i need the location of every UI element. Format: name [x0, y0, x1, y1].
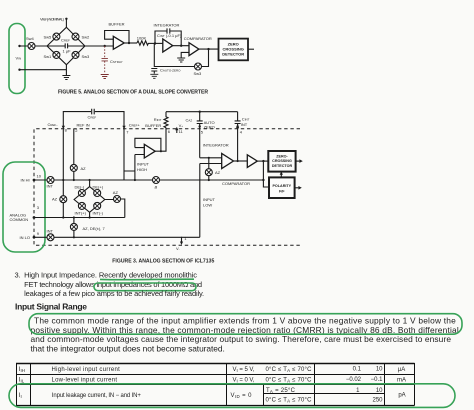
svg-text:0°C ≤ TA ≤ 70°C: 0°C ≤ TA ≤ 70°C	[266, 398, 313, 404]
svg-text:IN HI: IN HI	[21, 177, 30, 182]
capacitor CAZ	[197, 112, 203, 158]
wire auto-zero loop	[154, 44, 208, 67]
svg-text:that the integrator output doe: that the integrator output does not beco…	[31, 343, 225, 353]
capacitor CAUTO-ZERO	[151, 69, 157, 74]
svg-text:INT: INT	[47, 229, 54, 234]
wire integrator upper input	[200, 157, 222, 159]
ground CSTRAY	[101, 75, 109, 79]
node integrator out dot	[180, 45, 182, 47]
wire buffer plus input	[124, 155, 144, 181]
switch Sw1	[53, 51, 60, 58]
svg-text:AZ, DE(±), 7: AZ, DE(±), 7	[83, 226, 106, 231]
svg-text:IIH: IIH	[19, 367, 25, 373]
wire buffer feedback	[105, 31, 129, 44]
svg-text:CREF-: CREF-	[48, 122, 59, 127]
svg-text:CREF+: CREF+	[129, 123, 141, 128]
wire IN HI rail	[34, 179, 263, 181]
svg-text:INT(+): INT(+)	[75, 210, 87, 215]
wire CREF loop top	[63, 112, 124, 180]
switch AZ (integrator)	[208, 158, 210, 180]
svg-text:DETECTOR: DETECTOR	[222, 52, 244, 57]
switch Sw3 (auto zero)	[195, 63, 202, 70]
table row 1: IIH	[19, 367, 406, 404]
wire bridge right to common	[105, 199, 125, 218]
wire polarity to ZCD arrow	[280, 175, 282, 178]
svg-text:0°C ≤ TA ≤ 70°C: 0°C ≤ TA ≤ 70°C	[266, 367, 313, 373]
svg-text:10: 10	[37, 174, 42, 179]
svg-text:3.: 3.	[15, 271, 21, 280]
switch AZ (ref)	[70, 164, 77, 171]
svg-text:Sw5: Sw5	[44, 35, 53, 40]
svg-text:FIGURE 5. ANALOG SECTION OF A: FIGURE 5. ANALOG SECTION OF A DUAL SLOPE…	[58, 90, 208, 96]
green annotation oval (input pins)	[3, 162, 45, 252]
capacitor CSTRAY (dashed parasitic)	[104, 46, 106, 58]
switch B (in hi mid)	[153, 177, 160, 184]
capacitor CINT feedback	[155, 28, 181, 45]
zero crossing detector box	[219, 39, 249, 61]
svg-text:IN LO: IN LO	[20, 235, 30, 240]
node input lower dot	[18, 69, 20, 71]
svg-text:INPUT: INPUT	[137, 162, 150, 167]
svg-text:HIGH: HIGH	[137, 167, 147, 172]
svg-text:Sw1: Sw1	[44, 54, 53, 59]
svg-text:mA: mA	[397, 378, 406, 384]
svg-text:250: 250	[372, 398, 383, 404]
table borders	[16, 363, 415, 365]
green box annotation (common mode paragraph)	[29, 314, 462, 335]
svg-text:−0.02: −0.02	[346, 377, 362, 383]
svg-text:leakages of a few pico amps to: leakages of a few pico amps to be achiev…	[24, 289, 204, 298]
svg-text:B: B	[155, 184, 158, 189]
svg-text:LOW: LOW	[203, 203, 212, 208]
op-amp input-high buffer	[144, 144, 155, 158]
svg-text:Sw4: Sw4	[26, 36, 35, 41]
svg-text:Input Signal Range: Input Signal Range	[15, 301, 87, 311]
svg-text:AZ: AZ	[113, 190, 119, 195]
svg-text:Input leakage current, IN − an: Input leakage current, IN − and IN+	[52, 393, 141, 399]
svg-text:IIL: IIL	[19, 378, 25, 384]
svg-text:CAUTO-ZERO: CAUTO-ZERO	[160, 68, 181, 73]
ground bridge	[62, 76, 70, 80]
node comparator out dot	[262, 160, 264, 162]
wire AZ to common	[62, 180, 64, 218]
polarity f/f box	[269, 177, 295, 198]
switch INT (in hi)	[47, 177, 54, 184]
svg-text:DE(-): DE(-)	[75, 185, 85, 190]
svg-text:High-level input current: High-level input current	[52, 367, 121, 373]
node input upper dot	[18, 45, 20, 47]
svg-text:INT: INT	[47, 184, 54, 189]
svg-text:μA: μA	[398, 367, 405, 373]
switch INT(-)	[94, 202, 101, 209]
svg-text:Sw3: Sw3	[82, 54, 91, 59]
svg-text:1 μF: 1 μF	[63, 48, 72, 53]
svg-text:COMPARATOR: COMPARATOR	[222, 181, 250, 186]
green underline annotation	[100, 278, 194, 281]
svg-text:CSTRAY: CSTRAY	[110, 59, 123, 64]
wire bridge center	[47, 45, 85, 47]
wire common to IN LO branch	[73, 218, 75, 238]
svg-text:INPUT: INPUT	[203, 197, 216, 202]
svg-text:ZERO: ZERO	[204, 125, 215, 130]
switch Sw2	[72, 33, 79, 40]
svg-text:ZERO-: ZERO-	[276, 155, 288, 159]
svg-text:VREF (-NOMINAL): VREF (-NOMINAL)	[40, 17, 65, 22]
node VREF dot	[65, 18, 67, 20]
svg-text:0°C ≤ TA ≤ 70°C: 0°C ≤ TA ≤ 70°C	[266, 378, 313, 384]
wire bridge diamond	[47, 27, 85, 64]
wire input low rail vertical	[200, 164, 222, 238]
wire resistor to integrator	[149, 42, 163, 44]
switch DE(-)	[78, 190, 85, 197]
svg-text:POLARITY: POLARITY	[272, 184, 291, 188]
wire buffer output	[155, 128, 166, 152]
svg-text:DETECTOR: DETECTOR	[272, 164, 293, 168]
svg-text:COMPARATOR: COMPARATOR	[184, 36, 212, 41]
svg-text:High Input Impedance. Recently: High Input Impedance. Recently developed…	[24, 271, 197, 280]
svg-text:BUFFER: BUFFER	[109, 22, 125, 27]
wire REF/AZ branch	[73, 129, 75, 180]
wire IN LO rail	[34, 236, 200, 238]
switch Sw4	[28, 43, 35, 50]
svg-text:100K: 100K	[137, 35, 147, 40]
wire bottom return	[20, 65, 67, 75]
svg-text:Sw3: Sw3	[194, 71, 203, 76]
wire comparator out	[199, 48, 219, 50]
svg-text:CREF: CREF	[88, 115, 97, 120]
svg-text:Sw2: Sw2	[82, 35, 91, 40]
svg-text:AZ: AZ	[215, 170, 221, 175]
svg-text:CREF: CREF	[61, 38, 70, 43]
wire integrator output	[234, 160, 248, 162]
op-amp comparator	[247, 155, 257, 168]
node polarity branch dot	[262, 179, 264, 181]
svg-text:BUFFER: BUFFER	[145, 123, 161, 128]
green oval annotation (row 3)	[9, 384, 455, 408]
green oval annotation (input impedances)	[94, 283, 196, 291]
switch INT (in lo)	[47, 234, 54, 241]
svg-text:10: 10	[376, 367, 383, 373]
svg-text:0.1: 0.1	[353, 367, 362, 373]
svg-text:CROSSING: CROSSING	[272, 159, 292, 163]
wire buffer out to resistor	[124, 42, 137, 44]
switch INT(+)	[78, 202, 85, 209]
svg-text:COMMON: COMMON	[10, 217, 29, 222]
svg-text:INT(-): INT(-)	[93, 210, 104, 215]
dashed chip border	[34, 129, 302, 245]
node dot IN LO	[73, 236, 75, 238]
svg-text:V-: V-	[176, 246, 180, 251]
svg-text:DE(+): DE(+)	[93, 185, 104, 190]
capacitor CREF	[92, 109, 95, 115]
zero crossing detector box	[268, 151, 295, 172]
svg-text:CAZ: CAZ	[186, 118, 193, 123]
svg-text:−0.1: −0.1	[371, 377, 384, 383]
wire polarity out arrow	[295, 187, 299, 189]
switch AZ (bridge right)	[114, 196, 121, 203]
svg-text:FET technology allows input im: FET technology allows input impedances o…	[24, 280, 202, 289]
node comparator out dot	[207, 48, 209, 50]
svg-text:TA = 25°C: TA = 25°C	[266, 388, 296, 394]
svg-text:INTEGRATOR: INTEGRATOR	[154, 22, 180, 27]
wire input to Sw4	[20, 45, 48, 47]
wire bridge right to buffer	[85, 45, 113, 47]
svg-text:VI = 0 V,: VI = 0 V,	[233, 378, 255, 384]
svg-text:V+: V+	[179, 123, 184, 128]
capacitor CREF bridge	[65, 43, 67, 48]
wire buffer feedback	[135, 138, 161, 151]
wire ZCD out arrow	[296, 160, 300, 162]
svg-text:REF IN: REF IN	[77, 123, 90, 128]
svg-text:CINT (-0.1 μF): CINT (-0.1 μF)	[157, 33, 182, 38]
svg-text:F/F: F/F	[279, 189, 285, 193]
svg-text:II: II	[19, 393, 22, 399]
svg-text:pA: pA	[398, 393, 405, 399]
node dots common rail	[62, 216, 64, 218]
ground comparator reference	[181, 52, 189, 57]
green annotation oval (inputs)	[9, 24, 25, 94]
svg-text:VID = 0: VID = 0	[231, 393, 253, 399]
wire integrator out to comparator	[173, 45, 189, 47]
wire DE bridge diamond	[74, 180, 105, 218]
wire ZCD output stub	[248, 48, 254, 50]
switch Sw5	[53, 33, 60, 40]
wire analog common rail	[34, 217, 125, 219]
wire comparator out to polarity	[263, 161, 269, 187]
pin 1 V-	[181, 237, 183, 242]
switch AZ,DE (lower branch)	[70, 223, 77, 230]
wire integrator top rail	[166, 111, 238, 113]
svg-text:Low-level input current: Low-level input current	[52, 378, 118, 384]
svg-text:AZ: AZ	[81, 166, 87, 171]
svg-text:10: 10	[376, 388, 383, 394]
switch AZ (lower)	[60, 196, 67, 203]
svg-text:AZ: AZ	[52, 197, 58, 202]
svg-text:VI = 5 V,: VI = 5 V,	[233, 367, 255, 373]
wire comparator output	[257, 160, 268, 162]
switch Sw3 (bridge)	[72, 51, 79, 58]
svg-text:VIN: VIN	[16, 56, 22, 61]
capacitor CINT	[235, 112, 241, 161]
wire VREF to bridge top	[65, 19, 67, 28]
svg-text:CINT: CINT	[242, 116, 250, 121]
svg-text:INT: INT	[241, 122, 248, 127]
ground CAUTO-ZERO	[150, 74, 158, 78]
switch DE(+)	[94, 190, 101, 197]
svg-text:RINT: RINT	[154, 117, 162, 122]
svg-text:INTEGRATOR: INTEGRATOR	[203, 142, 229, 147]
node integrator input dot	[154, 42, 156, 44]
svg-text:FIGURE 3. ANALOG SECTION OF I: FIGURE 3. ANALOG SECTION OF ICL7135	[112, 259, 214, 265]
node buffer output dot	[128, 42, 130, 44]
node dots IN HI rail	[62, 179, 64, 181]
node buffer input dot	[104, 45, 106, 47]
